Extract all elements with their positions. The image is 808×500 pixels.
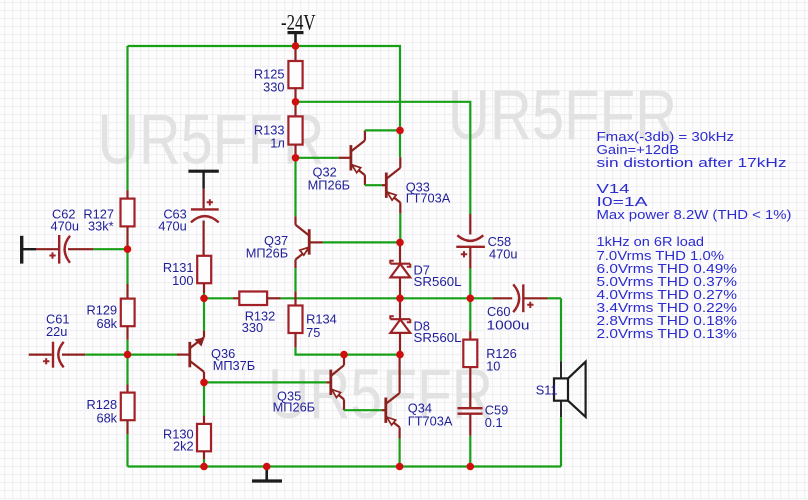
svg-text:ГТ703А: ГТ703А <box>406 190 451 205</box>
svg-text:1000u: 1000u <box>487 317 530 332</box>
junction R133 bottom <box>292 154 300 162</box>
annotation text block <box>597 129 792 341</box>
capacitor C59 <box>458 403 509 467</box>
svg-text:0.1: 0.1 <box>485 415 503 430</box>
capacitor C63 with terminal <box>158 171 218 256</box>
wire speaker column <box>548 298 562 466</box>
svg-text:S11: S11 <box>536 383 558 398</box>
junction D7-D8 output node <box>396 295 404 303</box>
junction R125-R133 <box>292 98 300 106</box>
wire output node row <box>204 297 470 299</box>
svg-text:33k*: 33k* <box>88 218 114 233</box>
junction R130 bottom <box>200 463 208 471</box>
resistor R133 <box>254 102 303 158</box>
wire Q32 base <box>296 157 351 159</box>
junction Q37-D7 node <box>396 239 404 247</box>
svg-text:2k2: 2k2 <box>173 439 194 454</box>
svg-text:SR560L: SR560L <box>414 330 462 345</box>
junction Q36 emitter node <box>200 379 208 387</box>
junction R131 node <box>200 295 208 303</box>
wire C62 to node <box>93 248 127 250</box>
wire Q32 emitter to Q33 base <box>365 184 386 186</box>
diode D8 SR560L <box>390 298 461 354</box>
svg-text:75: 75 <box>306 325 320 340</box>
diode D7 SR560L <box>390 242 461 298</box>
svg-text:470u: 470u <box>158 219 186 234</box>
wire C61 to node <box>85 354 127 356</box>
resistor R130 <box>163 382 211 466</box>
capacitor C62 <box>36 207 93 264</box>
resistor R131 <box>163 256 211 298</box>
svg-text:100: 100 <box>172 273 193 288</box>
resistor R128 <box>87 355 135 467</box>
wire Q34 emitter down <box>399 439 401 467</box>
junction Q32-Q33 node <box>396 127 404 135</box>
wire Q37 emitter to R134 <box>294 268 296 291</box>
wire C58 to output node <box>469 269 471 299</box>
wire Q32 collector link <box>365 129 400 131</box>
transistor Q37 <box>246 216 323 268</box>
wire Q33 emitter to D7 node <box>399 214 401 243</box>
capacitor C60 <box>470 284 547 332</box>
speaker S11 <box>536 361 586 417</box>
svg-text:10: 10 <box>486 358 500 373</box>
svg-text:МП26Б: МП26Б <box>273 399 316 414</box>
svg-text:sin distortion after 17kHz: sin distortion after 17kHz <box>597 155 787 170</box>
junction Q35 emitter node <box>340 351 348 359</box>
wire bottom rail <box>128 465 562 467</box>
junction C62-R127 <box>124 245 132 253</box>
svg-text:UR5FFR: UR5FFR <box>268 354 493 433</box>
wire Q36 base <box>128 354 190 356</box>
wire Q37 collector column <box>294 158 296 217</box>
junction C61 node <box>124 351 132 359</box>
input terminal <box>22 236 36 264</box>
power -24V terminal <box>288 33 304 46</box>
svg-text:330: 330 <box>263 79 284 94</box>
resistor R129 <box>87 249 135 354</box>
resistor R125 <box>254 46 303 102</box>
svg-text:68k: 68k <box>96 316 117 331</box>
svg-text:2.0Vrms THD 0.13%: 2.0Vrms THD 0.13% <box>597 326 738 341</box>
junction C58 output node <box>467 295 475 303</box>
transistor Q33 <box>386 157 450 213</box>
junction Q34 bottom <box>396 463 404 471</box>
resistor R127 <box>83 190 134 249</box>
wire Q36 collector up <box>203 298 205 330</box>
wire Q36 emitter row to Q35 base <box>204 381 331 383</box>
junction power rail <box>292 42 300 50</box>
junction C59 bottom <box>467 463 475 471</box>
capacitor C61 <box>29 312 86 368</box>
transistor Q35 <box>273 355 344 415</box>
svg-text:МП37Б: МП37Б <box>213 358 256 373</box>
junction ground <box>263 463 271 471</box>
wire Q37 base link <box>323 241 401 243</box>
svg-text:МП26Б: МП26Б <box>246 245 289 260</box>
resistor R126 <box>463 298 516 407</box>
resistor R132 <box>233 292 281 336</box>
svg-text:68k: 68k <box>96 410 117 425</box>
svg-text:1л: 1л <box>270 135 285 150</box>
wire bias row <box>296 348 401 355</box>
transistor Q34 <box>386 355 453 439</box>
svg-text:МП26Б: МП26Б <box>308 177 351 192</box>
wire Q35 collector to Q34 base <box>344 409 386 411</box>
svg-text:22u: 22u <box>46 324 67 339</box>
junction D8 bottom <box>396 351 404 359</box>
svg-text:Max power 8.2W (THD < 1%): Max power 8.2W (THD < 1%) <box>597 207 792 222</box>
svg-text:ГТ703А: ГТ703А <box>408 413 453 428</box>
svg-text:470u: 470u <box>51 219 79 234</box>
capacitor C58 <box>456 214 517 269</box>
transistor Q36 <box>190 331 255 383</box>
svg-text:470u: 470u <box>489 246 517 261</box>
svg-text:330: 330 <box>242 320 263 335</box>
svg-text:-24V: -24V <box>281 9 316 34</box>
ground terminal <box>252 467 282 482</box>
wire left column top <box>126 46 128 190</box>
wire C58 feed <box>296 102 471 214</box>
svg-text:SR560L: SR560L <box>414 274 462 289</box>
transistor Q32 <box>308 130 365 192</box>
resistor R134 <box>289 291 337 347</box>
svg-text:1kHz on 6R load: 1kHz on 6R load <box>597 234 705 249</box>
wire top rail <box>128 46 401 157</box>
